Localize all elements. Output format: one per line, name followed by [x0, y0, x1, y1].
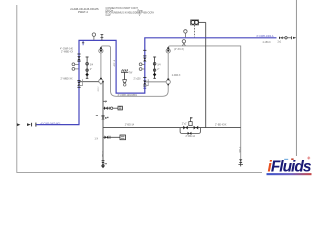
svg-text:2"x1": 2"x1": [182, 123, 188, 125]
svg-text:4"-CWR-1402-A: 4"-CWR-1402-A: [256, 35, 274, 38]
svg-text:2"-WBD-XX: 2"-WBD-XX: [61, 51, 74, 53]
svg-text:S-P-BB-OCR-I: S-P-BB-OCR-I: [139, 12, 155, 15]
svg-text:2"x150: 2"x150: [134, 79, 142, 81]
svg-text:2-WW-X: 2-WW-X: [172, 75, 181, 77]
svg-text:(4"-XX-X): (4"-XX-X): [174, 49, 184, 51]
svg-text:PWHT-4: PWHT-4: [78, 10, 88, 14]
svg-text:2"-BD: 2"-BD: [238, 147, 240, 153]
svg-text:2"-BD: 2"-BD: [101, 152, 103, 158]
svg-text:4"-CWS-1402-AD1: 4"-CWS-1402-AD1: [41, 122, 62, 125]
svg-text:2": 2": [105, 101, 107, 103]
svg-text:1-X: 1-X: [95, 139, 99, 141]
svg-text:2"-BD-XXX: 2"-BD-XXX: [215, 125, 227, 127]
svg-text:4"-CWR-1402-BD1: 4"-CWR-1402-BD1: [118, 95, 138, 97]
svg-text:4"-CWR-140: 4"-CWR-140: [60, 49, 74, 51]
svg-text:2-BD: 2-BD: [96, 87, 98, 92]
svg-text:2"-WBD-XX: 2"-WBD-XX: [61, 78, 74, 80]
svg-text:2": 2": [90, 69, 92, 71]
svg-text:BCXXX/MB/MUS-XXXBL/DDBBL: BCXXX/MB/MUS-XXXBL/DDBBL: [106, 12, 142, 15]
svg-text:2": 2": [157, 69, 159, 71]
svg-text:iFluids: iFluids: [268, 158, 312, 175]
svg-text:®: ®: [307, 156, 310, 161]
svg-text:4-150-C: 4-150-C: [263, 42, 272, 44]
svg-text:4"-CW: 4"-CW: [112, 60, 114, 67]
svg-text:2"-BD-14: 2"-BD-14: [186, 136, 196, 138]
svg-text:2"-BD-14: 2"-BD-14: [125, 124, 135, 126]
svg-text:CwP: CwP: [106, 14, 111, 17]
